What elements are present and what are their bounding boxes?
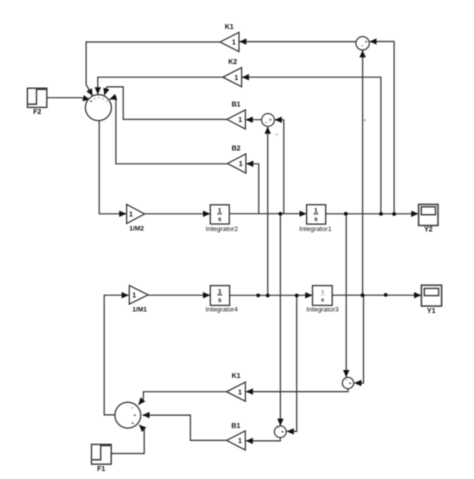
- svg-text:1: 1: [239, 161, 243, 168]
- wire v2 branch to SumB1b top: [279, 214, 281, 426]
- svg-text:1: 1: [218, 288, 222, 295]
- svg-text:+: +: [281, 429, 284, 435]
- gain K1 bottom: [227, 382, 246, 401]
- svg-text:1: 1: [132, 293, 136, 300]
- integrator block Integrator2: [210, 205, 229, 224]
- junction dot on x2 wire x381: [379, 212, 383, 216]
- scope Y1: [421, 285, 441, 306]
- wire x1 line elbow to SumK1b right: [354, 295, 363, 383]
- svg-text:−: −: [102, 97, 105, 103]
- svg-text:1: 1: [232, 40, 236, 47]
- gain B1 bottom: [227, 431, 246, 450]
- label 1/M1: [132, 306, 147, 313]
- svg-text:F2: F2: [33, 109, 41, 116]
- svg-text:+: +: [349, 381, 352, 387]
- svg-text:F1: F1: [97, 466, 105, 473]
- svg-text:B1: B1: [231, 423, 240, 430]
- label Y1: [427, 308, 436, 315]
- svg-text:Y2: Y2: [424, 226, 433, 233]
- label F1: [97, 466, 105, 473]
- junction dot on v1 wire x267: [266, 294, 270, 298]
- stray mark: [276, 133, 278, 135]
- wire SumK1b output to K1 bottom input: [246, 389, 348, 392]
- gain K2: [223, 68, 242, 87]
- svg-text:B2: B2: [232, 146, 241, 153]
- label B2: [232, 146, 241, 153]
- step source F1: [92, 444, 112, 464]
- wire v1 tap to SumB1a bottom: [267, 127, 269, 296]
- gain 1/M1: [129, 286, 148, 305]
- svg-text:+: +: [269, 118, 272, 124]
- scope Y2: [419, 204, 438, 225]
- svg-text:1: 1: [238, 117, 242, 124]
- label Integrator3: [306, 307, 339, 314]
- svg-text:−: −: [131, 406, 134, 412]
- svg-text:−: −: [97, 96, 100, 102]
- junction dot on v1 wire x258: [256, 294, 260, 298]
- svg-text:B1: B1: [232, 101, 241, 108]
- svg-text:1/M2: 1/M2: [129, 226, 144, 233]
- wire v2 branch down to SumK1b top: [345, 214, 347, 377]
- junction dot on x1 wire x362: [361, 293, 365, 297]
- wire Integrator1 to scope Y2: [326, 213, 419, 215]
- wire B1 top output to Sum2: [104, 87, 226, 120]
- wire x2 tap to K2 input: [242, 77, 381, 214]
- label Integrator1: [299, 226, 332, 233]
- label Integrator4: [206, 306, 239, 313]
- svg-text:s: s: [321, 297, 324, 303]
- svg-text:1: 1: [321, 289, 324, 294]
- wire v2 tap to B2 input: [246, 164, 258, 214]
- junction dot on x1 wire x385: [384, 293, 388, 297]
- label F2: [33, 109, 41, 116]
- label Integrator2: [206, 226, 239, 233]
- svg-text:1: 1: [238, 389, 242, 396]
- label K1 bottom: [232, 373, 241, 380]
- gain B1 top: [227, 110, 246, 129]
- sum SumK1a top right: [356, 37, 369, 50]
- svg-text:Integrator3: Integrator3: [306, 307, 339, 314]
- wire B1 bottom output to Sum1 right: [143, 415, 227, 440]
- svg-text:1: 1: [218, 207, 222, 214]
- label B1 bottom: [231, 423, 240, 430]
- gain K1 top: [220, 32, 239, 51]
- wire K1 top output to Sum2: [86, 42, 220, 96]
- svg-text:K2: K2: [228, 59, 237, 66]
- sum SumB1a: [262, 114, 275, 127]
- wire F2 to Sum2: [47, 98, 90, 100]
- svg-text:−: −: [105, 99, 108, 105]
- svg-text:−: −: [277, 425, 280, 431]
- wire SumK1a output to K1 top input: [239, 41, 356, 43]
- svg-text:+: +: [131, 421, 134, 427]
- svg-text:1: 1: [129, 211, 133, 218]
- wire Sum2 output to gain 1/M2: [99, 120, 126, 213]
- svg-text:1: 1: [314, 207, 318, 214]
- svg-text:1: 1: [238, 438, 242, 445]
- step source F2: [27, 88, 46, 107]
- label B1 top: [232, 101, 241, 108]
- wire v1 branch to SumB1b right: [287, 295, 297, 431]
- svg-text:−: −: [265, 120, 268, 126]
- svg-text:Y1: Y1: [427, 308, 436, 315]
- sum Sum2: [85, 95, 111, 121]
- svg-text:s: s: [218, 216, 222, 223]
- svg-text:Integrator4: Integrator4: [206, 306, 239, 313]
- junction dot on x2 wire x345: [344, 212, 348, 216]
- wire 1/M2 to Integrator2: [145, 213, 211, 215]
- sum Sum1: [115, 402, 141, 428]
- wire Integrator4 to Integrator3: [230, 294, 313, 296]
- junction dot on x2 wire x394: [392, 212, 396, 216]
- svg-text:−: −: [93, 96, 96, 102]
- svg-text:K1: K1: [232, 373, 241, 380]
- svg-text:1/M1: 1/M1: [132, 306, 147, 313]
- svg-text:1: 1: [234, 75, 238, 82]
- svg-text:Integrator2: Integrator2: [206, 226, 239, 233]
- svg-text:+: +: [365, 40, 368, 46]
- svg-text:+: +: [133, 413, 136, 419]
- gain 1/M2: [127, 204, 145, 223]
- svg-text:Integrator1: Integrator1: [299, 226, 332, 233]
- wire 1/M1 to Integrator4: [148, 294, 210, 296]
- wire Integrator3 to scope Y1: [332, 294, 421, 296]
- svg-text:s: s: [218, 297, 222, 304]
- wire x2 tap to SumK1a right: [370, 42, 394, 214]
- sum SumK1b: [342, 377, 353, 388]
- wire x1 line to SumK1a bottom: [362, 50, 364, 295]
- integrator block Integrator1: [307, 205, 326, 224]
- label K2: [228, 59, 237, 66]
- label Y2: [424, 226, 433, 233]
- wire v2 tap to SumB1a right: [275, 120, 284, 214]
- wire K1 bottom output to Sum1: [139, 392, 227, 405]
- svg-text:s: s: [314, 216, 318, 223]
- svg-text:+: +: [90, 99, 93, 105]
- label K1 top: [225, 24, 234, 31]
- svg-text:−: −: [361, 44, 364, 50]
- svg-text:−: −: [345, 377, 348, 383]
- wire Sum1 output to gain 1/M1: [104, 295, 128, 415]
- label 1/M2: [129, 226, 144, 233]
- wire SumB1b output to B1 bottom input: [246, 438, 280, 441]
- integrator block Integrator4: [210, 286, 229, 306]
- wire F1 output to Sum1 bottom: [111, 425, 144, 454]
- sum SumB1b: [274, 425, 286, 437]
- integrator block Integrator3: [313, 286, 333, 306]
- gain B2: [227, 154, 246, 173]
- junction dot on v1 wire x296: [295, 294, 299, 298]
- svg-text:K1: K1: [225, 24, 234, 31]
- wire Integrator2 to Integrator1: [229, 213, 306, 215]
- junction dot on v2 wire x280: [279, 212, 283, 216]
- wire B2 output to Sum2: [110, 97, 228, 164]
- wire K2 output to Sum2: [98, 77, 223, 94]
- wire SumB1a to B1 top: [246, 119, 262, 121]
- stray mark 2: [364, 119, 366, 121]
